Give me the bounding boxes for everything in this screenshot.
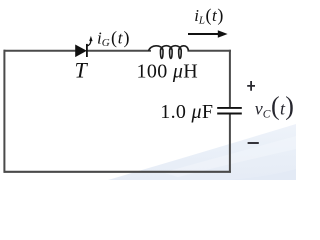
background swoosh highlight band bbox=[163, 136, 296, 177]
svg-text:iL(t): iL(t) bbox=[194, 5, 223, 27]
svg-text:1.0 μF: 1.0 μF bbox=[160, 101, 213, 123]
wire top right segment (inductor to corner) bbox=[188, 50, 231, 52]
gate arrowhead bbox=[89, 36, 92, 41]
arrowhead i_L bbox=[218, 30, 228, 37]
wire right vertical lower bbox=[229, 114, 231, 173]
plus sign bbox=[247, 81, 255, 91]
background swoosh bbox=[108, 124, 296, 180]
wire top mid segment (diode to inductor) bbox=[87, 50, 151, 52]
inductor L coil bbox=[149, 46, 189, 59]
minus sign bbox=[248, 142, 259, 144]
wire top-left segment bbox=[4, 50, 76, 52]
thyristor T cathode bar bbox=[86, 44, 88, 57]
wire right vertical upper bbox=[229, 50, 231, 107]
svg-text:100 μH: 100 μH bbox=[137, 61, 199, 83]
capacitor C top plate bbox=[217, 107, 242, 109]
svg-text:T: T bbox=[75, 57, 89, 82]
wire left vertical bbox=[3, 50, 5, 173]
capacitor C bottom plate bbox=[217, 113, 242, 115]
thyristor gate wire with arrow bbox=[87, 41, 91, 46]
arrow i_L(t) bbox=[188, 33, 219, 35]
background swoosh lower arc bbox=[225, 169, 296, 180]
wire bottom bbox=[4, 171, 231, 173]
thyristor T anode triangle bbox=[76, 45, 86, 56]
